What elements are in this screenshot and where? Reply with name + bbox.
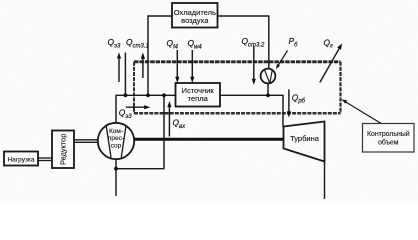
arrow Q_rb down [287, 89, 291, 117]
node junction on intake [114, 167, 118, 171]
duct compressor to turbine [134, 138, 284, 141]
box label control volume (Контрольный объем) [363, 124, 415, 153]
arrow Q_g diagonal out [320, 43, 342, 82]
turbine T1 (Турбина) [284, 122, 325, 162]
arrow Q_vx up [167, 101, 171, 137]
box U2 heat source (Источник тепла) [176, 83, 221, 107]
wire header left (heat source to compressor top) [116, 95, 176, 123]
node junction header x164 [162, 93, 166, 97]
box reducer (Редуктор) [52, 131, 74, 169]
stream arrow Q_w4 down into heat source [190, 50, 194, 83]
wire header right (heat source to turbine inlet) [220, 95, 283, 127]
box U1 air cooler (Охладитель воздуха) [172, 3, 218, 28]
control volume dashed boundary [134, 62, 341, 114]
wire turbine exhaust [324, 162, 326, 200]
callout arrow control volume [342, 99, 382, 123]
arrow Q_e3 up [117, 52, 121, 82]
box load (Нагрузка) [4, 152, 38, 166]
node junction header x148 [146, 93, 150, 97]
arrow Q_e3 lower right [126, 105, 150, 109]
arrow Q_st3.1 up [141, 53, 145, 79]
arrow Q_st3.2 down [252, 46, 256, 85]
wire compressor intake [115, 159, 117, 196]
stream line Q_e3 out [124, 53, 126, 96]
pump P_b circle [261, 69, 276, 84]
compressor C1 circle (Компрессор) [98, 123, 134, 159]
stream arrow Q_f4 down into heat source [175, 50, 179, 83]
shaft load to reducer (double line) [38, 158, 52, 161]
callout line P_b [276, 51, 288, 70]
wire cooler left to header [148, 16, 172, 95]
wire pump bottom to header [267, 83, 269, 95]
shaft reducer to compressor (double line) [74, 140, 99, 143]
node junction header pump [266, 93, 270, 97]
wire compressor bypass branch [116, 95, 164, 168]
node junction header x124.7 [124, 93, 128, 97]
wire cooler right to pump [218, 16, 269, 69]
